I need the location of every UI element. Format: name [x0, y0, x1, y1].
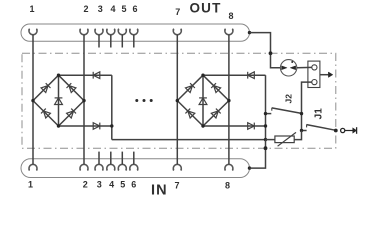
bridge B1 edge left-bottom	[33, 101, 59, 126]
node IN strip	[248, 166, 251, 169]
earth terminal box	[308, 61, 320, 87]
terminal 3 IN cup	[95, 164, 104, 170]
svg-text:1: 1	[29, 4, 34, 14]
wire rail B2	[265, 75, 267, 139]
varistor R1	[275, 136, 294, 143]
stub terminal 5 OUT	[121, 35, 123, 48]
node B2 top	[201, 74, 204, 77]
terminal 3 OUT cup	[95, 29, 104, 35]
node B2 rail	[264, 124, 267, 127]
ellipsis dots	[135, 99, 138, 102]
node rail junction	[264, 138, 267, 141]
svg-text:3: 3	[98, 4, 103, 14]
bridge B2 edge top-right	[203, 75, 229, 100]
stub terminal 3 IN	[98, 152, 100, 165]
node B2 bottom	[201, 124, 204, 127]
node J1 right (boundary)	[334, 129, 338, 133]
wire B2 center	[202, 75, 204, 126]
terminal 8 OUT cup	[225, 29, 234, 35]
svg-text:8: 8	[228, 11, 233, 21]
diode D12 (B2 suppressor)	[199, 98, 207, 105]
node boundary bottom	[264, 146, 268, 150]
bridge B2 edge bottom-right	[203, 101, 229, 126]
svg-text:J1: J1	[314, 108, 325, 120]
wire earth rail	[112, 139, 266, 141]
node B1 top	[57, 74, 60, 77]
stub terminal 4 OUT	[110, 35, 112, 48]
svg-text:4: 4	[109, 179, 114, 189]
svg-text:2: 2	[83, 4, 88, 14]
svg-text:7: 7	[175, 7, 180, 17]
node boundary top	[269, 51, 273, 55]
terminal 5 OUT cup	[118, 29, 127, 35]
wire box to J rail	[302, 82, 312, 130]
terminal strip OUT	[21, 24, 250, 41]
terminal 2 IN cup	[80, 164, 89, 170]
svg-text:5: 5	[120, 179, 125, 189]
wire IN to rail	[250, 140, 266, 169]
terminal 5 IN cup	[118, 164, 127, 170]
bridge B1 edge top-right	[59, 75, 85, 100]
wire rail to varistor	[266, 139, 275, 141]
stub terminal 4 IN	[110, 152, 112, 165]
node J2 left	[264, 112, 267, 115]
wire F1 to terminal box	[297, 66, 312, 68]
svg-text:IN: IN	[151, 182, 168, 198]
wire varistor to J1	[294, 131, 301, 140]
bridge B2 edge left-top	[177, 75, 203, 100]
wire line 2	[83, 35, 85, 165]
svg-text:2: 2	[83, 179, 88, 189]
earth arrow bottom	[345, 130, 353, 132]
svg-text:7: 7	[174, 181, 179, 191]
wire rail B1	[111, 75, 113, 139]
earth point circle	[341, 128, 345, 132]
terminal strip IN	[21, 159, 250, 178]
node B2 left	[176, 99, 179, 102]
terminal 4 IN cup	[106, 164, 115, 170]
svg-text:J2: J2	[283, 94, 293, 104]
diode D9 (B2 right-top)	[214, 86, 221, 93]
stub terminal 6 IN	[133, 152, 135, 165]
wire B1 top lead	[59, 74, 112, 76]
svg-text:4: 4	[110, 4, 115, 14]
diode D14 (B2 to rail bottom)	[248, 123, 255, 130]
node J1 left	[300, 129, 303, 132]
node B1 rail	[110, 124, 113, 127]
switch J1	[302, 130, 307, 132]
diode D2 (B1 right-top)	[69, 86, 76, 93]
terminal 1 OUT cup	[29, 29, 38, 35]
stub terminal 3 OUT	[98, 35, 100, 48]
wire line 7	[176, 35, 178, 165]
terminal 2 OUT cup	[80, 29, 89, 35]
node B1 bottom	[57, 124, 60, 127]
terminal 8 IN cup	[225, 164, 234, 170]
svg-text:6: 6	[132, 4, 137, 14]
svg-text:6: 6	[131, 179, 136, 189]
diode D4 (B1 bottom-right)	[67, 111, 74, 118]
node OUT strip	[248, 31, 251, 34]
diode D10 (B2 bottom-left)	[188, 111, 195, 118]
wire B2 bottom lead	[203, 125, 266, 127]
wire B1 center	[58, 75, 60, 126]
wire line 1	[32, 35, 34, 165]
diode D5 (B1 suppressor)	[55, 98, 63, 105]
bridge B1 edge left-top	[33, 75, 59, 100]
wire B2 top lead	[203, 74, 266, 76]
terminal 1 IN cup	[29, 164, 38, 170]
diode D8 (B2 left-top)	[185, 86, 192, 93]
bridge B1 edge bottom-right	[59, 101, 85, 126]
diode D1 (B1 left-top)	[41, 86, 48, 93]
terminal 6 OUT cup	[129, 29, 138, 35]
stub terminal 5 IN	[121, 152, 123, 165]
svg-text:OUT: OUT	[189, 1, 221, 16]
diode D6 (B1 to rail top)	[93, 72, 100, 79]
wire B1 bottom lead	[59, 125, 112, 127]
diode D7 (B1 to rail bottom)	[93, 123, 100, 130]
node B1 left	[31, 99, 34, 102]
device boundary (dash-dot)	[22, 53, 336, 148]
wire line 8	[228, 35, 230, 165]
terminal 6 IN cup	[129, 164, 138, 170]
terminal 4 OUT cup	[106, 29, 115, 35]
diode D3 (B1 bottom-left)	[43, 111, 50, 118]
svg-text:3: 3	[97, 179, 102, 189]
svg-text:8: 8	[225, 181, 230, 191]
diode D13 (B2 to rail top)	[248, 72, 255, 79]
svg-text:1: 1	[28, 179, 33, 189]
terminal 7 IN cup	[173, 164, 182, 170]
switch J2	[266, 113, 272, 115]
wire OUT to arrester	[250, 33, 281, 68]
node J2 right	[300, 112, 303, 115]
earth arrow top	[320, 74, 329, 76]
bridge B2 edge left-bottom	[177, 101, 203, 126]
gas discharge tube F1	[280, 60, 296, 76]
stub terminal 6 OUT	[133, 35, 135, 48]
terminal 7 OUT cup	[173, 29, 182, 35]
node B1 right	[82, 99, 85, 102]
svg-text:5: 5	[121, 4, 126, 14]
node B2 right	[227, 99, 230, 102]
diode D11 (B2 bottom-right)	[211, 111, 218, 118]
